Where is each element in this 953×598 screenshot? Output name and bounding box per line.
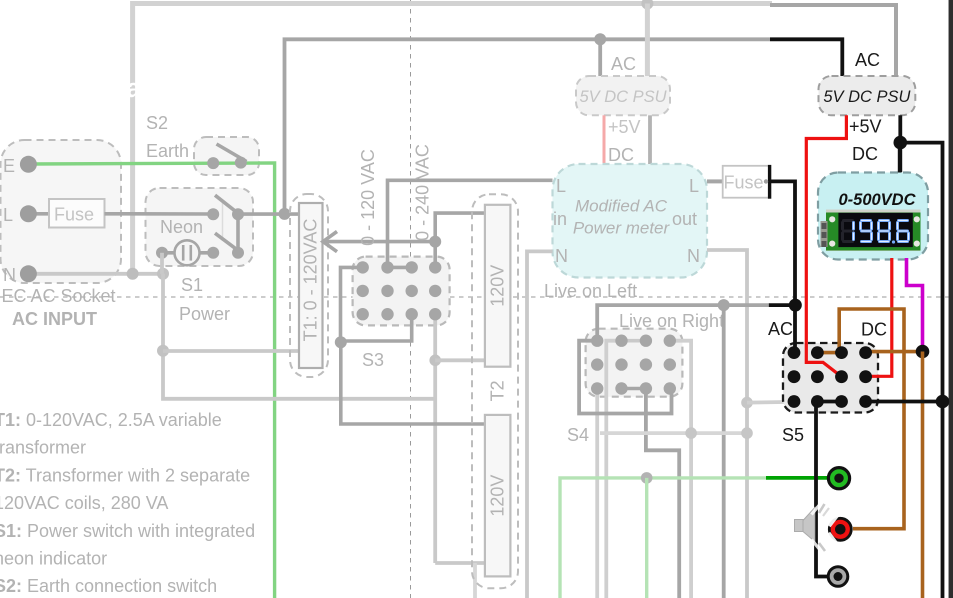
banana jack green (828, 468, 849, 489)
wire S4 r1c1 loop to r3c4 (579, 341, 671, 414)
svg-text:120V: 120V (488, 265, 508, 307)
node DC junction (894, 136, 908, 150)
wire S4 r3c3 down to bottom (646, 389, 679, 598)
description text block (0, 410, 255, 596)
svg-text:S1: Power switch with integrat: S1: Power switch with integrated (0, 521, 255, 541)
node neutral perimeter PSU1 branch (641, 0, 653, 10)
wire top rail active black to PSU2 (770, 39, 842, 76)
wire brown S5 r1c4 to DC node (866, 350, 923, 354)
wire live fuse F1 to S1 (105, 212, 214, 216)
switch S5 contacts (788, 346, 872, 408)
switch S2 earth (146, 113, 247, 169)
wire fuse F2 to S5 AC black (770, 181, 795, 352)
svg-text:Live on Left: Live on Left (544, 281, 637, 301)
wire brown S5 r1c2 loop to red jack (817, 309, 904, 529)
node neutral T1 branch (157, 345, 169, 357)
node crossbar junction 1 (685, 427, 697, 439)
switch S3 body (353, 257, 450, 326)
wire pale green drop (645, 478, 648, 598)
svg-text:N: N (687, 246, 700, 266)
wire neutral to PSU1 AC (645, 4, 650, 77)
banana jack red (829, 515, 852, 545)
wire +5V red PSU2 to S5 (806, 115, 846, 376)
svg-text:+5V: +5V (849, 117, 882, 137)
power meter U1 modified AC (553, 164, 708, 278)
svg-text:out: out (672, 209, 697, 229)
svg-text:Neon: Neon (160, 217, 203, 237)
IEC AC socket connector (1, 140, 122, 285)
node right bus junction (936, 395, 950, 409)
svg-text:transformer: transformer (0, 438, 86, 458)
wire S3 r1c1 down to junction (341, 267, 363, 342)
node N-perimeter junction (127, 268, 139, 280)
svg-text:Fuse: Fuse (724, 173, 764, 193)
node S3 output junction (335, 336, 347, 348)
node top rail PSU1 branch (594, 33, 606, 45)
node pale green junction (641, 472, 653, 484)
switch S2 body (194, 137, 259, 175)
wire junction to T2 coil2 top (341, 342, 485, 424)
svg-text:Power meter: Power meter (573, 219, 671, 238)
svg-text:120VAC coils, 280 VA: 120VAC coils, 280 VA (0, 493, 168, 513)
svg-text:DC: DC (852, 144, 878, 164)
wire neutral down-right to transformers (163, 274, 435, 399)
svg-text:Fuse: Fuse (54, 205, 94, 225)
switch S3 contacts (357, 261, 442, 320)
wire bright green to jack (766, 476, 830, 480)
svg-text:neon indicator: neon indicator (0, 549, 107, 569)
wire voltmeter sense black (898, 143, 902, 173)
node wiper junction (429, 236, 441, 248)
wire S4 r3c1 down to bottom (595, 390, 599, 598)
wire pale green bottom (560, 478, 768, 598)
svg-text:Power: Power (179, 304, 230, 324)
svg-text:L: L (3, 205, 13, 225)
node live-right junction (718, 299, 730, 311)
voltmeter M1 0-500VDC (818, 173, 928, 260)
node S5 neutral stub junction (741, 397, 753, 409)
wire S4 r1c2 down to bottom (606, 341, 621, 598)
svg-text:AC: AC (611, 54, 636, 74)
wire junction vertical down (722, 305, 726, 598)
wire voltmeter red to S5 (866, 258, 892, 376)
svg-text:T1: 0 - 120VAC: T1: 0 - 120VAC (301, 219, 321, 342)
display digits 198.6 (843, 221, 909, 244)
wire PSU2 DC black down (898, 115, 902, 172)
wire light crossbar (600, 431, 747, 435)
switch S5 body (783, 343, 878, 413)
svg-text:S2: Earth connection switch: S2: Earth connection switch (0, 576, 217, 596)
wire 0-240VAC riser to T2 coil1 top (435, 213, 487, 242)
svg-text:S1: S1 (181, 275, 203, 295)
svg-text:0 - 240 VAC: 0 - 240 VAC (413, 144, 433, 241)
speaker sound wave slashes (812, 503, 822, 515)
wire S4 live to S5 (gray part) (597, 305, 769, 344)
wire to T2 coil1 bottom (435, 358, 485, 362)
wire S1 output to T1 top (238, 212, 300, 216)
svg-text:Earth: Earth (146, 141, 189, 161)
grid dashed horizontal divider (0, 296, 953, 298)
wire DC junction to right bus (900, 143, 942, 598)
svg-text:Modified AC: Modified AC (575, 197, 668, 216)
wire voltmeter purple (907, 258, 923, 352)
wire S3 r3c3 to junction (341, 314, 412, 341)
svg-text:AC INPUT: AC INPUT (12, 309, 97, 329)
fuse F2 output (723, 165, 770, 199)
svg-text:+5V: +5V (608, 117, 641, 137)
switch S1 body (146, 188, 254, 266)
node N-S1 junction (157, 268, 169, 280)
svg-text:IEC AC Socket: IEC AC Socket (0, 286, 116, 306)
wire neutral stub to S5 (747, 400, 785, 404)
svg-text:120V: 120V (488, 475, 508, 517)
wire neutral to T1 bottom (163, 349, 300, 353)
wire brown DC node down (921, 352, 925, 598)
wire +5V faded red (603, 115, 606, 164)
svg-text:S5: S5 (782, 425, 804, 445)
wire earth green E to S2 and down left side (30, 163, 275, 598)
wire dark right edge bus (949, 0, 953, 598)
svg-text:N: N (555, 246, 568, 266)
terminal dot N (20, 265, 37, 282)
svg-text:S4: S4 (567, 425, 589, 445)
grid dashed vertical divider (410, 0, 412, 598)
wire meter N in (527, 251, 553, 598)
node T2 coil1 bottom branch (429, 355, 441, 367)
svg-text:a: a (126, 73, 142, 103)
svg-text:AC: AC (768, 319, 793, 339)
svg-text:T1: 0-120VAC, 2.5A variable: T1: 0-120VAC, 2.5A variable (0, 410, 222, 430)
wire PSU1 ground faded (648, 115, 652, 164)
power supply PSU2 active (819, 76, 916, 115)
wire neutral perimeter (faded) (133, 4, 896, 275)
svg-text:L: L (556, 176, 566, 196)
banana jack black (828, 567, 848, 587)
wire S3 r3c4 neutral drop (433, 314, 437, 563)
svg-text:in: in (553, 209, 567, 229)
wire to T2 coil2 bottom (435, 561, 485, 565)
svg-text:5V DC PSU: 5V DC PSU (579, 88, 666, 106)
wire 0-120VAC from S3 to power meter L in (388, 180, 553, 267)
wire S5 r3c4 to right bus (866, 400, 943, 404)
svg-text:AC: AC (855, 50, 880, 70)
terminal dot E (20, 156, 37, 173)
wire neon to neutral (160, 253, 164, 274)
fuse F1 input (49, 199, 105, 228)
node DC output junction (916, 345, 930, 359)
power supply PSU1 faded (576, 76, 670, 115)
wire S4 r1c4 down to bottom (670, 341, 691, 598)
node AC live junction (789, 299, 802, 312)
wire T1 wiper arrow (323, 232, 435, 252)
switch S1 power with neon (160, 195, 244, 259)
wire S1 output riser to top rail (285, 39, 771, 214)
wire live L from socket to fuse F1 (28, 212, 49, 216)
switch S4 body (586, 329, 683, 397)
svg-text:S2: S2 (146, 113, 168, 133)
svg-text:DC: DC (608, 145, 634, 165)
svg-text:0 - 120 VAC: 0 - 120 VAC (358, 149, 378, 246)
wire neutral N from socket to S1 area (28, 272, 163, 276)
node crossbar junction 2 (741, 427, 753, 439)
svg-text:S3: S3 (362, 350, 384, 370)
switch S4 contacts (591, 335, 676, 395)
neon lamp NE1 (156, 240, 213, 265)
transformer T2 (472, 194, 518, 588)
terminal dot L (20, 205, 37, 222)
svg-text:DC: DC (861, 320, 887, 340)
svg-text:5V DC PSU: 5V DC PSU (823, 88, 910, 106)
wire top rail to PSU1 AC (598, 39, 602, 76)
transformer T1 variable (290, 194, 328, 377)
wire meter N out (707, 250, 747, 598)
svg-text:T2: Transformer with 2 separat: T2: Transformer with 2 separate (0, 465, 250, 485)
wire coil2 bottom drop to edge (473, 563, 477, 598)
svg-text:E: E (3, 156, 15, 176)
wire wiper junction down to S3 (433, 242, 437, 268)
svg-text:L: L (689, 176, 699, 196)
wire live black segment to node (769, 303, 796, 307)
svg-text:N: N (3, 265, 16, 285)
svg-text:T2: T2 (488, 380, 508, 401)
svg-text:0-500VDC: 0-500VDC (838, 191, 916, 209)
speaker icon buzzer (795, 504, 830, 551)
wire meter L out to fuse F2 (707, 179, 723, 183)
node T1 top junction (279, 208, 291, 220)
wire S5 r3c2 down to black jack (816, 402, 828, 577)
